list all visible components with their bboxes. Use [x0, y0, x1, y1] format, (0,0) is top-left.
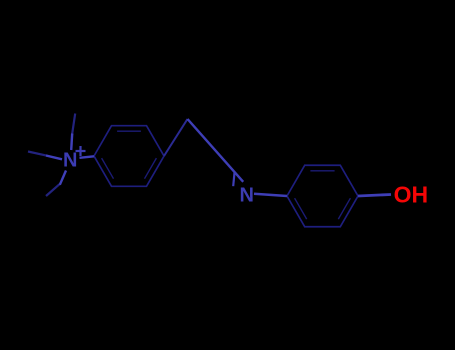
bond CH=N main line — [188, 119, 244, 182]
ring 2 inner double bond top edge — [310, 170, 334, 172]
svg-text:N: N — [63, 150, 77, 172]
bond N+ to methyl (up), outer dark part — [72, 114, 75, 136]
plus sign of N+ — [76, 150, 86, 152]
ring 1 inner double bond lower-right edge — [145, 158, 157, 179]
ring 2 inner double bond lower-right edge — [338, 198, 350, 219]
bond N+ to methyl (down-left), bright part near N — [60, 171, 66, 185]
benzene ring 1 (trimethylammonium phenyl) — [94, 126, 164, 187]
bond ring 2 to OH — [358, 195, 391, 197]
bond N+ to methyl (left), outer dark part — [28, 152, 47, 156]
benzene ring 2 (hydroxyphenyl) — [287, 165, 358, 226]
bond N+ to methyl (left), bright part near N — [46, 156, 62, 160]
bond CH=N second (double bond) line — [233, 172, 234, 187]
ring 1 inner double bond top edge — [117, 130, 141, 132]
ring 1 inner double bond lower-left edge — [102, 158, 114, 179]
bond N+ to methyl (down-left), outer dark part — [46, 184, 60, 196]
ring 2 inner double bond lower-left edge — [295, 198, 307, 219]
bond ring 1 to CH — [164, 119, 188, 156]
bond N imine to ring 2 — [254, 194, 287, 196]
svg-text:N: N — [240, 185, 254, 207]
bond N+ to methyl (up), bright part near N — [71, 134, 72, 151]
svg-text:OH: OH — [394, 181, 429, 207]
bond N+ to ring 1 — [80, 156, 95, 158]
